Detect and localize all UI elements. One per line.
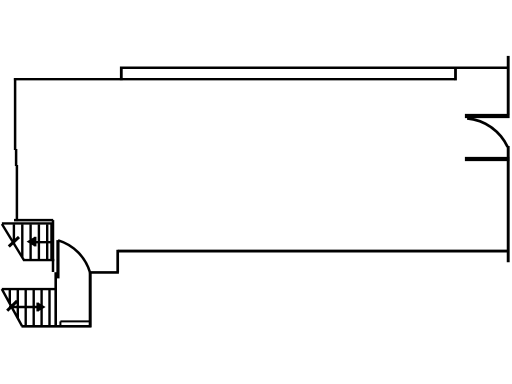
wall right upper segment [507,56,510,115]
vestibule inner threshold step [59,321,61,326]
stairs S1 bottom edge [24,259,55,261]
door D2 swing arc [58,240,90,272]
stairs S1 tread 5 [46,225,48,259]
stairs S1 right wall [52,220,55,272]
stairs S2 arrowhead base bar [36,303,39,312]
wall bottom lower segment [89,271,119,274]
wall top single line [14,78,455,80]
wall right lower segment [507,146,510,262]
wall top double right cap [454,67,457,81]
stairs S2 bottom edge [22,325,92,328]
stairs S2 tread 3 [25,290,27,325]
stairs S2 arrowhead [39,303,46,311]
stairs S2 tread 6 [48,290,50,325]
wall left vertical jog 2 [15,149,18,166]
stairs S1 tread 3 [29,225,31,259]
stairs S2 tread 1 [9,290,11,304]
wall bottom [118,250,510,253]
wall left vertical jog 3 [16,165,19,221]
stairs S1 arrowhead [27,237,35,246]
wall bottom jog vertical [116,250,119,273]
stairs S1 right edge [50,223,52,260]
stairs S1 tread 2 [21,225,23,258]
stairs S1 top edge [2,222,52,224]
door D1 upper jamb stub [465,114,510,118]
stairs S2 direction arrow line [9,306,38,308]
stairs S2 top edge [2,288,57,290]
stairs S2 right edge [54,272,57,327]
stairs S2 tread 2 [17,290,19,319]
stairs S1 left slant edge [2,224,24,261]
door D2 leaf [56,240,59,278]
stairs S1 direction arrow line [35,241,52,243]
vestibule right wall [89,272,92,327]
wall left vertical [14,78,17,150]
stairs S2 start cross stroke [7,301,17,311]
stairs S1 tread 1 [13,225,15,244]
stairs S1 start cross stroke [9,237,19,247]
stairs S2 tread 4 [33,290,35,325]
wall top double upper line [120,66,509,69]
door D1 lower jamb stub [465,157,510,161]
door D1 swing arc [467,118,508,146]
stairs S1 tread 4 [38,225,40,259]
stairs S2 tread 5 [40,290,42,325]
stairs S1 arrowhead base bar [34,237,37,247]
wall top double left cap [120,67,123,81]
stairs S2 left slant edge [2,289,22,326]
stairs S1 upper: wall line above [14,219,53,222]
vestibule inner threshold line [60,320,89,322]
